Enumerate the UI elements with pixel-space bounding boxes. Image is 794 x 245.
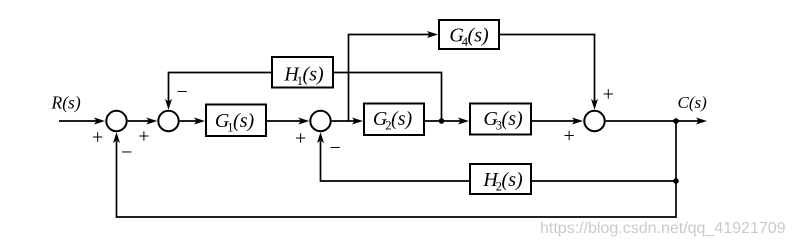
summing junction S3: [310, 111, 330, 131]
wire: output node down to H2 line (node D): [675, 121, 677, 181]
block H2: [470, 164, 531, 194]
block G3: [470, 104, 531, 135]
svg-text:G1(s): G1(s): [215, 110, 255, 135]
svg-text:G3(s): G3(s): [483, 108, 523, 133]
block H1: [272, 57, 333, 88]
svg-text:G2(s): G2(s): [373, 108, 413, 133]
block G4: [439, 20, 499, 49]
svg-text:+: +: [563, 125, 574, 147]
svg-text:+: +: [92, 127, 103, 149]
svg-text:H1(s): H1(s): [283, 64, 324, 89]
junction dot after G2 (node B): [439, 118, 445, 124]
svg-text:https://blog.csdn.net/qq_41921: https://blog.csdn.net/qq_41921709: [540, 220, 786, 237]
summing junction S2: [158, 111, 178, 131]
wire: G3 to S4: [531, 118, 583, 125]
wire: takeoff before G2 up and into G4: [349, 31, 439, 121]
wire: G4 output down into S4: [499, 35, 598, 110]
block G1: [206, 105, 266, 137]
svg-text:−: −: [121, 142, 132, 164]
svg-text:−: −: [176, 81, 187, 103]
svg-text:−: −: [329, 137, 340, 159]
svg-text:R(s): R(s): [51, 93, 81, 113]
block G2: [364, 104, 424, 136]
wire: G1 to S3: [266, 118, 309, 125]
junction dot at output (node C): [673, 118, 679, 124]
wire: input into sum S1: [59, 118, 105, 125]
wire: node B up and into H1 right side: [333, 73, 442, 122]
wire: outer feedback loop from node D to bottom of S1: [113, 132, 676, 217]
wire: H1 output to top of S2: [165, 73, 272, 110]
wire: S4 to output C(s): [606, 118, 707, 125]
junction dot on feedback drop (node D): [673, 178, 679, 184]
svg-text:H2(s): H2(s): [482, 169, 523, 194]
svg-text:G4(s): G4(s): [449, 25, 489, 50]
svg-text:+: +: [138, 126, 149, 148]
wire: S3 to block G2 (with takeoff tee to G4): [332, 118, 363, 125]
summing junction S4: [584, 111, 604, 131]
wire: S1 to S2: [128, 118, 158, 125]
svg-text:C(s): C(s): [678, 93, 708, 112]
svg-text:+: +: [295, 128, 306, 150]
wire: S2 to block G1: [180, 118, 205, 125]
summing junction S1: [106, 111, 126, 131]
wire: node D into H2 right side: [531, 180, 676, 182]
svg-text:+: +: [603, 83, 614, 105]
wire: H2 output to bottom of S3: [317, 132, 470, 181]
wire: G2 to G3: [424, 118, 469, 125]
